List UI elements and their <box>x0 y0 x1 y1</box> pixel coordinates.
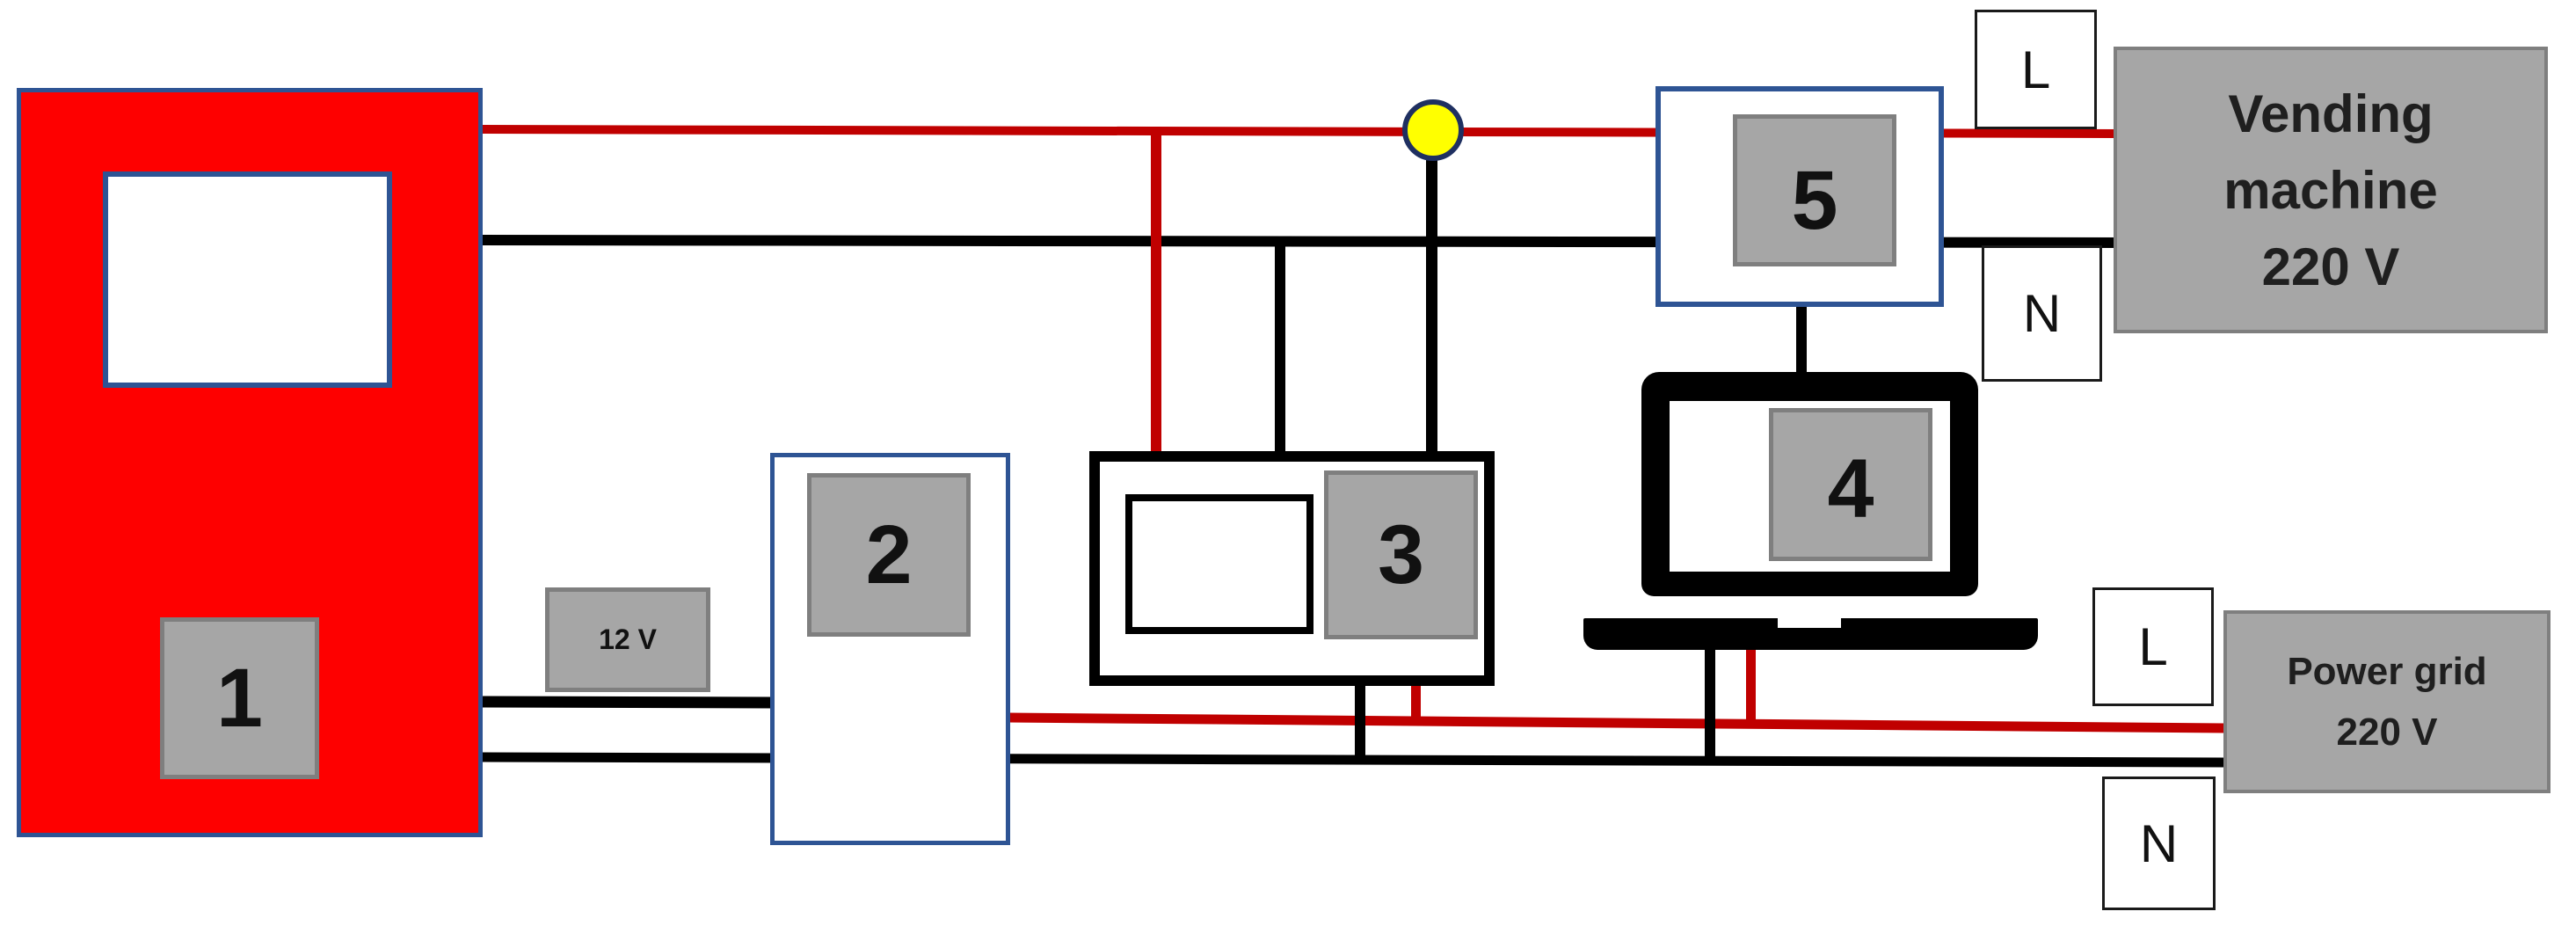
wire black vertical from node to box3 <box>1426 130 1437 460</box>
module 3 <box>1324 470 1478 639</box>
power grid <box>2223 610 2551 793</box>
wire black link box5 to laptop <box>1796 303 1807 387</box>
module 5 <box>1733 114 1896 266</box>
laptop screen frame <box>1641 372 1978 596</box>
terminal L grid <box>2092 587 2214 706</box>
box 3 <box>1089 451 1495 686</box>
box 5 <box>1655 86 1944 307</box>
wire black neutral bottom <box>483 757 2225 762</box>
module 2 <box>807 473 971 637</box>
controller red box <box>17 88 483 837</box>
laptop base <box>1583 618 2038 650</box>
box 2 <box>770 453 1010 845</box>
vending machine <box>2114 47 2548 333</box>
wire black vertical below laptop <box>1705 642 1715 764</box>
wire black vertical to box3 <box>1275 240 1285 460</box>
wire red vertical below box3 <box>1411 682 1421 725</box>
module 1 <box>160 617 319 779</box>
laptop screen <box>1670 401 1950 572</box>
module 4 <box>1769 408 1932 561</box>
junction node <box>1402 99 1464 161</box>
box 3 inner window <box>1125 494 1313 634</box>
wire red live bottom <box>1008 718 2225 728</box>
laptop base notch <box>1778 618 1841 628</box>
terminal N vending <box>1982 245 2102 382</box>
wire black neutral top <box>483 240 2121 243</box>
wire red live top <box>483 129 2119 134</box>
wire red vertical below laptop <box>1746 642 1756 727</box>
wire red vertical to box3 <box>1151 130 1161 460</box>
wire black vertical below box3 <box>1355 682 1365 764</box>
wire black controller to box2 <box>483 702 774 703</box>
terminal L vending <box>1975 10 2097 129</box>
display window in controller <box>103 171 392 388</box>
12 V label box <box>545 587 710 692</box>
terminal N grid <box>2102 777 2216 910</box>
